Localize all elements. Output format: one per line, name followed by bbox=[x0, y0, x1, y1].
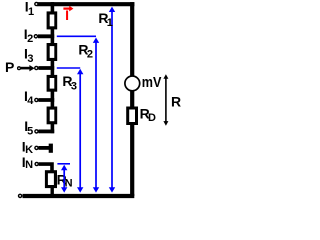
svg-text:R: R bbox=[171, 94, 181, 110]
wire top rail bbox=[37, 2, 134, 6]
resistor segment 2 bbox=[47, 43, 58, 61]
terminal I2 bbox=[34, 35, 37, 38]
dimension arrow R3 (blue) bbox=[77, 69, 83, 193]
wire IK stub bbox=[39, 146, 50, 150]
P probe small circle bbox=[18, 67, 21, 70]
svg-text:3: 3 bbox=[27, 53, 33, 65]
svg-text:1: 1 bbox=[107, 17, 113, 29]
wire right branch upper bbox=[130, 2, 134, 76]
terminal IN bbox=[35, 162, 38, 165]
terminal I5 bbox=[35, 130, 38, 133]
IK stub end bar bbox=[49, 144, 53, 153]
dimension line R2 top (blue) bbox=[57, 35, 96, 37]
wire chain seg 4 to I5 tap bbox=[51, 124, 55, 133]
wire chain seg 2-3 bbox=[51, 61, 55, 76]
dimension arrow RN (blue) bbox=[61, 165, 67, 193]
terminal IK bbox=[35, 146, 38, 149]
svg-text:5: 5 bbox=[27, 126, 33, 138]
dimension line R3 top (blue) bbox=[57, 67, 80, 69]
dimension arrow R1 (blue) bbox=[109, 7, 115, 193]
resistor RD bbox=[126, 107, 138, 126]
dimension line RN top (blue) bbox=[57, 163, 70, 165]
svg-text:P: P bbox=[5, 59, 14, 75]
svg-text:I: I bbox=[65, 7, 69, 23]
wire IN tap elbow bbox=[39, 164, 52, 171]
terminal I3 bbox=[35, 66, 38, 69]
wire bottom rail bbox=[23, 194, 135, 198]
wire I3 tap bbox=[38, 66, 54, 70]
svg-text:1: 1 bbox=[28, 6, 34, 18]
wire I4 tap bbox=[38, 98, 54, 102]
dimension arrow R2 (blue) bbox=[93, 38, 99, 193]
svg-text:D: D bbox=[148, 112, 156, 124]
resistor segment 4 bbox=[47, 107, 58, 125]
terminal I1 bbox=[35, 2, 38, 5]
resistor RN bbox=[45, 170, 57, 188]
svg-text:K: K bbox=[25, 144, 33, 156]
terminal I4 bbox=[35, 98, 38, 101]
terminal bottom-left bbox=[19, 194, 22, 197]
dimension arrow R (black, double-headed) bbox=[163, 74, 168, 126]
wire chain seg 1-2 bbox=[51, 29, 55, 44]
mV meter U1 bbox=[125, 76, 140, 91]
wire meter to RD stub bbox=[130, 91, 134, 107]
resistor segment 3 bbox=[47, 75, 58, 92]
current arrow I (red) bbox=[63, 6, 73, 12]
P probe arrow bbox=[21, 65, 35, 71]
svg-text:N: N bbox=[25, 159, 33, 171]
svg-text:2: 2 bbox=[27, 33, 33, 45]
resistor segment 1 bbox=[47, 11, 58, 29]
svg-text:4: 4 bbox=[27, 95, 34, 107]
svg-text:3: 3 bbox=[71, 80, 77, 92]
svg-text:2: 2 bbox=[87, 49, 93, 61]
wire chain seg 3-4 bbox=[51, 91, 55, 107]
svg-text:mV: mV bbox=[142, 74, 162, 91]
wire I2 tap bbox=[38, 34, 54, 38]
wire I5 tap bbox=[39, 129, 55, 133]
wire RN bottom stub bbox=[51, 188, 54, 195]
wire RD to bottom rail bbox=[130, 125, 134, 197]
wire left chain top stub bbox=[51, 2, 55, 12]
